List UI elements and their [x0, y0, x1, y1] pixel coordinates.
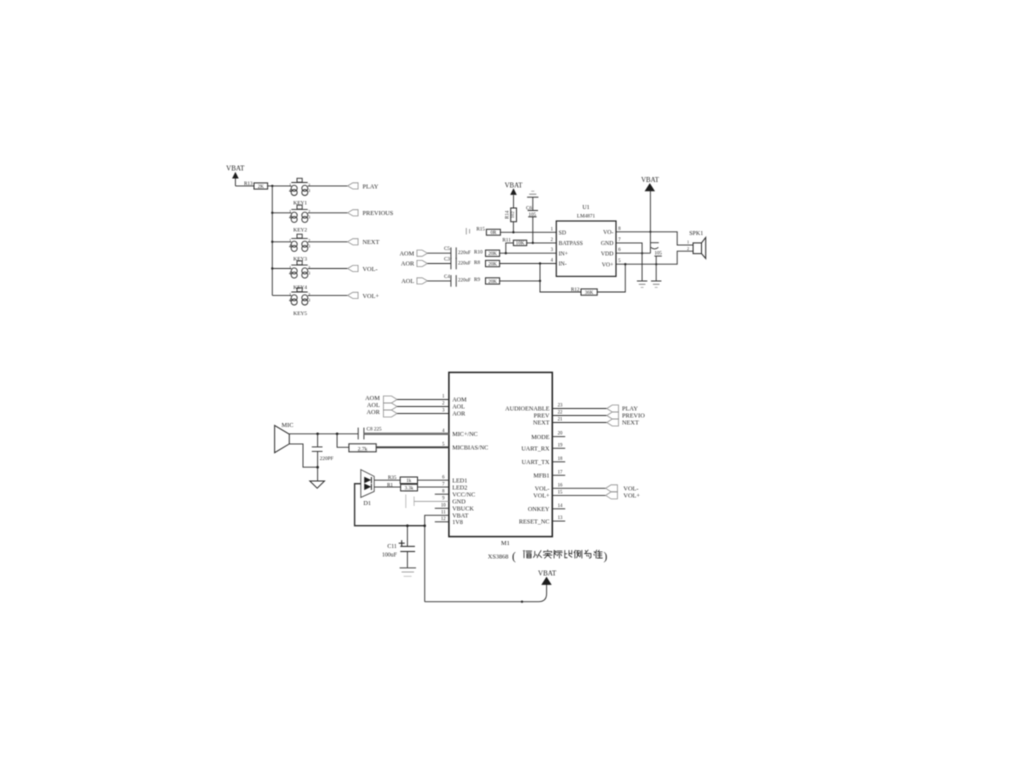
- wire R1 to LED2 pin7: [418, 486, 449, 488]
- wire R14 to SD wire: [512, 222, 514, 233]
- svg-text:1: 1: [442, 395, 445, 400]
- resistor R9 20K: [474, 277, 500, 285]
- svg-text:C8 225: C8 225: [367, 427, 383, 433]
- svg-text:VO-: VO-: [603, 230, 613, 236]
- wire bus to KEY2: [272, 212, 291, 214]
- wire VBAT to R13: [235, 185, 254, 187]
- svg-text:M1: M1: [501, 540, 510, 547]
- wire KEY2 to PREVIOUS tag: [308, 212, 348, 214]
- capacitor C3 220uF: [444, 257, 471, 270]
- wire VO- to speaker: [616, 232, 693, 245]
- wire AOM to C5: [427, 252, 450, 254]
- wire R35 to LED1 pin6: [418, 479, 449, 481]
- glyph zhun 准: [594, 550, 603, 558]
- node mic/2.7k junction: [336, 433, 339, 436]
- node key bus junction: [271, 185, 273, 187]
- svg-text:MODE: MODE: [531, 434, 549, 441]
- svg-text:R35: R35: [388, 475, 397, 481]
- svg-text:AOR: AOR: [401, 261, 415, 268]
- wire D1 to R35: [374, 479, 400, 481]
- node R14/SD junction: [512, 231, 514, 233]
- svg-text:R15: R15: [476, 227, 485, 233]
- wire bus to KEY5: [272, 294, 291, 296]
- svg-text:ONKEY: ONKEY: [528, 506, 550, 513]
- resistor R11 10K: [502, 238, 526, 247]
- svg-text:MIC+/NC: MIC+/NC: [452, 431, 478, 438]
- svg-text:6: 6: [618, 248, 621, 253]
- switch KEY1: [289, 178, 311, 206]
- svg-text:AOL: AOL: [452, 404, 465, 411]
- svg-text:AOL: AOL: [401, 278, 414, 285]
- port AOR (M1 input header): [367, 409, 398, 417]
- svg-text:AOL: AOL: [367, 402, 380, 409]
- pin stub 17: [552, 474, 565, 476]
- pin stub 20: [552, 436, 565, 438]
- svg-text:C11: C11: [387, 544, 397, 550]
- svg-text:BATPASS: BATPASS: [559, 241, 583, 247]
- svg-text:C4: C4: [444, 274, 450, 280]
- led D1 (dual): [361, 470, 374, 507]
- svg-text:23: 23: [558, 404, 563, 409]
- port VOL- (M1): [606, 485, 639, 493]
- svg-text:2: 2: [551, 238, 554, 243]
- svg-text:D1: D1: [363, 500, 371, 507]
- wire R8 to IN- pin4: [500, 263, 557, 265]
- wire R9 to IN- node: [500, 280, 540, 282]
- wire C8 to MIC+ pin4 (bold): [364, 433, 449, 435]
- svg-text:PLAY: PLAY: [622, 406, 638, 413]
- switch KEY2: [289, 205, 311, 233]
- svg-text:VBAT: VBAT: [226, 165, 245, 173]
- op-amp U1 LM4871: [551, 205, 622, 277]
- svg-text:2: 2: [442, 402, 445, 407]
- resistor R15 0R: [476, 227, 500, 237]
- svg-text:KEY5: KEY5: [293, 311, 307, 317]
- capacitor C4 220uF: [444, 274, 471, 287]
- wire key bus vertical: [271, 186, 273, 296]
- wire pin21 to NEXT: [552, 422, 607, 424]
- resistor R12 36K: [571, 287, 597, 296]
- port VOL+: [348, 292, 380, 300]
- speaker SPK1: [687, 231, 706, 258]
- svg-text:1k: 1k: [406, 479, 412, 484]
- chip M1 XS3868: [441, 372, 563, 547]
- node 220PF/mic-return junction: [316, 466, 319, 469]
- nc marks left of R15: [466, 228, 469, 235]
- svg-text:(: (: [512, 551, 516, 563]
- svg-text:U1: U1: [582, 205, 589, 211]
- svg-text:2: 2: [687, 246, 689, 251]
- port AOM (amp input): [399, 250, 427, 257]
- svg-text:): ): [604, 551, 608, 563]
- wire AOM to pin1: [397, 399, 449, 401]
- svg-text:MFB1: MFB1: [533, 473, 549, 480]
- power VBAT (R14): [505, 182, 524, 208]
- svg-text:NEXT: NEXT: [622, 420, 639, 427]
- resistor R10 20K: [474, 250, 500, 258]
- pin stub 8: [435, 493, 449, 495]
- wire VO+ to speaker: [616, 251, 693, 264]
- node bus row2: [271, 212, 273, 214]
- wire R15 to SD pin1: [500, 231, 556, 233]
- wire R10 to IN+ pin3: [500, 252, 557, 254]
- glyph yi 以: [533, 551, 541, 558]
- svg-text:18: 18: [558, 457, 563, 462]
- svg-text:10K: 10K: [516, 242, 525, 247]
- ground (mic, triangle): [310, 467, 325, 488]
- wire VBAT pin11 down: [425, 515, 449, 601]
- svg-text:AOM: AOM: [365, 395, 380, 402]
- power VBAT (bottom): [538, 569, 557, 584]
- node R11/IN+ junction: [505, 252, 507, 254]
- glyph li 例: [574, 550, 582, 558]
- svg-text:VOL-: VOL-: [363, 266, 378, 273]
- wire MIC bottom: [289, 444, 317, 467]
- pin stub 14: [552, 508, 565, 510]
- wire pin9 GND: [414, 500, 449, 502]
- svg-text:19: 19: [558, 443, 563, 448]
- wire D1 common to VBAT net: [355, 484, 425, 526]
- svg-text:1V8: 1V8: [452, 519, 463, 526]
- svg-text:7: 7: [618, 238, 621, 243]
- svg-text:VOL+: VOL+: [623, 493, 640, 500]
- svg-text:MICBIAS/NC: MICBIAS/NC: [452, 445, 488, 452]
- resistor R8 20K: [474, 260, 500, 268]
- port PREVIOUS: [348, 210, 394, 218]
- svg-text:4: 4: [551, 259, 554, 264]
- power VBAT (key bus): [226, 165, 245, 186]
- svg-text:220PF: 220PF: [320, 456, 334, 462]
- port VOL+ (M1): [606, 492, 641, 500]
- wire bus to KEY4: [272, 268, 291, 270]
- svg-text:20: 20: [558, 432, 563, 437]
- svg-text:XS3868: XS3868: [488, 554, 509, 561]
- wire D1 to R1: [374, 486, 400, 488]
- svg-text:R8: R8: [474, 260, 480, 266]
- svg-text:R10: R10: [474, 250, 483, 256]
- node IN- feedback junction: [539, 262, 541, 264]
- resistor 2.7k (mic bias): [349, 444, 376, 453]
- ground (flipped, above C6): [527, 191, 538, 197]
- node VBAT net corner junction: [423, 524, 426, 527]
- pin stub 18: [552, 461, 565, 463]
- power VBAT (amp right): [641, 177, 660, 253]
- resistor R1 3.3k: [387, 482, 418, 491]
- capacitor C6 105: [526, 197, 538, 243]
- svg-text:AOR: AOR: [367, 409, 381, 416]
- capacitor faint (pin9 GND): [406, 495, 414, 509]
- svg-text:VOL+: VOL+: [363, 293, 380, 300]
- svg-text:PREVIO: PREVIO: [622, 413, 645, 420]
- svg-text:R9: R9: [474, 277, 480, 283]
- pin stub 12: [435, 521, 449, 523]
- svg-text:8: 8: [618, 227, 621, 232]
- glyph shi 实: [543, 550, 552, 558]
- svg-text:KEY3: KEY3: [293, 256, 307, 262]
- svg-text:NEXT: NEXT: [533, 420, 550, 427]
- resistor R35 1k: [388, 475, 418, 484]
- switch KEY4: [289, 261, 311, 291]
- svg-text:7: 7: [442, 482, 445, 487]
- svg-text:NEXT: NEXT: [363, 239, 380, 246]
- svg-text:R1: R1: [387, 482, 393, 488]
- svg-text:15: 15: [558, 490, 563, 495]
- port AOL (M1 input header): [367, 402, 397, 410]
- svg-text:9: 9: [442, 497, 445, 502]
- port PLAY: [348, 183, 379, 191]
- svg-text:GND: GND: [601, 241, 614, 247]
- port VOL-: [348, 265, 378, 273]
- wire R13 to KEY1: [268, 185, 292, 187]
- svg-text:R12: R12: [571, 287, 580, 293]
- glyph qing 请: [523, 551, 531, 558]
- ground (amp GND pin): [637, 281, 647, 287]
- svg-text:105: 105: [654, 251, 662, 256]
- svg-text:1: 1: [687, 240, 689, 245]
- wire mic bias branch: [337, 434, 349, 448]
- wire pin22 to PREVIO: [552, 415, 607, 417]
- node AOL/IN- junction: [539, 280, 541, 282]
- svg-text:5: 5: [618, 259, 621, 264]
- svg-text:VBAT: VBAT: [641, 177, 660, 184]
- glyph ji 际: [554, 550, 562, 558]
- glyph wei 为: [584, 550, 591, 558]
- wire MIC top to C8: [289, 433, 358, 435]
- wire pin23 to PLAY: [552, 408, 607, 410]
- port PREVIO (M1): [607, 412, 645, 420]
- svg-text:AOM: AOM: [452, 397, 467, 404]
- pin stub 13: [552, 520, 565, 522]
- node mic/220PF junction: [316, 433, 319, 436]
- svg-text:IN+: IN+: [559, 251, 568, 257]
- node VBAT/VO- crossing blob: [649, 231, 651, 233]
- svg-text:220uF: 220uF: [458, 261, 471, 266]
- svg-text:13: 13: [558, 516, 563, 521]
- wire IN- down to R12: [540, 264, 581, 293]
- resistor R14 102 (vertical): [505, 208, 516, 222]
- port NEXT: [348, 239, 380, 247]
- wire R11 to BATPASS pin2: [527, 242, 557, 244]
- wire VBAT net bottom: [425, 584, 547, 601]
- svg-text:VCC/NC: VCC/NC: [452, 491, 475, 498]
- svg-text:16: 16: [558, 483, 563, 488]
- svg-text:VOL-: VOL-: [623, 486, 638, 493]
- microphone MIC: [275, 422, 294, 453]
- svg-text:UART_RX: UART_RX: [521, 446, 550, 453]
- node VDD/GND crossing blob: [641, 252, 643, 254]
- capacitor bypass 105: [650, 243, 662, 281]
- svg-text:20K: 20K: [488, 252, 497, 257]
- svg-text:21: 21: [558, 418, 563, 423]
- port NEXT (M1): [607, 419, 639, 427]
- node C6/BATPASS junction: [532, 242, 534, 244]
- wire KEY3 to NEXT tag: [308, 241, 348, 243]
- svg-text:0R: 0R: [490, 231, 497, 236]
- node cap/VO+ crossing blob: [655, 263, 657, 265]
- svg-text:KEY2: KEY2: [293, 227, 307, 233]
- port AOL (amp input): [401, 278, 427, 285]
- wire pin15 to VOL+: [552, 494, 605, 496]
- svg-text:17: 17: [558, 470, 563, 475]
- glyph bi 比: [565, 550, 572, 557]
- resistor R13 2K: [244, 181, 268, 190]
- svg-text:36K: 36K: [585, 291, 594, 296]
- svg-text:VBAT: VBAT: [538, 569, 557, 577]
- svg-text:6: 6: [442, 475, 445, 480]
- svg-text:100uF: 100uF: [382, 553, 398, 559]
- wire AOR to C3: [427, 263, 450, 265]
- svg-text:VDD: VDD: [601, 251, 614, 257]
- node bottom wire blob: [521, 601, 523, 603]
- wire KEY1 to PLAY tag: [308, 185, 348, 187]
- wire bus to KEY3: [272, 241, 291, 243]
- svg-text:220uF: 220uF: [458, 251, 471, 256]
- svg-text:C3: C3: [444, 257, 450, 263]
- switch KEY5: [289, 288, 311, 317]
- svg-text:3: 3: [442, 409, 445, 414]
- svg-text:PLAY: PLAY: [363, 183, 379, 190]
- svg-text:VO+: VO+: [602, 262, 614, 268]
- svg-text:20K: 20K: [488, 280, 497, 285]
- wire KEY5 to VOL+ tag: [308, 294, 348, 296]
- pin stub 10: [435, 507, 449, 509]
- svg-text:102: 102: [510, 211, 515, 219]
- capacitor C11 100uF: [382, 526, 415, 568]
- svg-text:10: 10: [441, 504, 446, 509]
- wire R11 left to IN+: [506, 243, 514, 253]
- capacitor C5 220uF: [444, 246, 471, 259]
- svg-text:PREV: PREV: [534, 413, 550, 420]
- svg-text:PREVIOUS: PREVIOUS: [363, 210, 394, 217]
- node R12/VO+ junction: [624, 263, 626, 265]
- svg-text:20K: 20K: [488, 262, 497, 267]
- svg-text:11: 11: [441, 511, 446, 516]
- port AOM (M1 input header): [365, 395, 397, 403]
- svg-text:2K: 2K: [258, 185, 265, 190]
- port AOR (amp input): [401, 260, 427, 267]
- wire AOR to pin3: [397, 413, 449, 415]
- node bus row4: [271, 267, 273, 269]
- svg-text:22: 22: [558, 411, 563, 416]
- svg-text:VOL-: VOL-: [535, 486, 550, 493]
- svg-text:3: 3: [551, 248, 554, 253]
- svg-text:3.3k: 3.3k: [405, 487, 414, 492]
- wire R12 to VO+: [597, 264, 625, 292]
- svg-text:14: 14: [558, 504, 563, 509]
- svg-text:SD: SD: [559, 230, 566, 236]
- svg-text:IN-: IN-: [559, 262, 567, 268]
- svg-text:UART_TX: UART_TX: [522, 459, 550, 466]
- svg-text:VBAT: VBAT: [505, 182, 524, 189]
- svg-text:VOL+: VOL+: [533, 493, 550, 500]
- svg-text:AUDIOENABLE: AUDIOENABLE: [505, 406, 550, 413]
- switch KEY3: [289, 234, 311, 262]
- wire VDD to VBAT: [616, 252, 650, 254]
- pin stub 19: [552, 447, 565, 449]
- wire GND pin7 to ground: [616, 243, 642, 281]
- wire AOL to pin2: [397, 406, 449, 408]
- svg-text:12: 12: [441, 517, 446, 522]
- capacitor C8 225: [358, 427, 382, 440]
- ground (C11): [400, 568, 416, 576]
- svg-text:1: 1: [551, 227, 554, 232]
- note XS3868 scale text: [488, 550, 608, 563]
- svg-text:AOR: AOR: [452, 411, 466, 418]
- wire AOL to C4: [427, 280, 450, 282]
- svg-text:AOM: AOM: [399, 250, 414, 257]
- svg-text:MIC: MIC: [282, 422, 294, 429]
- wire KEY4 to VOL- tag: [308, 268, 348, 270]
- wire pin16 to VOL-: [552, 487, 605, 489]
- svg-text:2.7k: 2.7k: [358, 446, 368, 452]
- node bus row3: [271, 241, 273, 243]
- svg-text:8: 8: [442, 489, 445, 494]
- capacitor 220PF: [312, 434, 334, 467]
- node C11 junction: [406, 524, 409, 527]
- svg-text:C5: C5: [444, 246, 450, 252]
- svg-text:220uF: 220uF: [458, 279, 471, 284]
- svg-text:SPK1: SPK1: [689, 231, 703, 237]
- ground (bypass cap): [651, 281, 661, 287]
- svg-text:LED2: LED2: [452, 484, 467, 491]
- svg-text:RESET_NC: RESET_NC: [519, 518, 550, 525]
- port PLAY (M1): [607, 405, 639, 413]
- svg-text:VBUCK: VBUCK: [452, 506, 474, 513]
- svg-text:LM4871: LM4871: [577, 214, 596, 220]
- wire 2.7k to MICBIAS pin5 (bold): [376, 446, 449, 448]
